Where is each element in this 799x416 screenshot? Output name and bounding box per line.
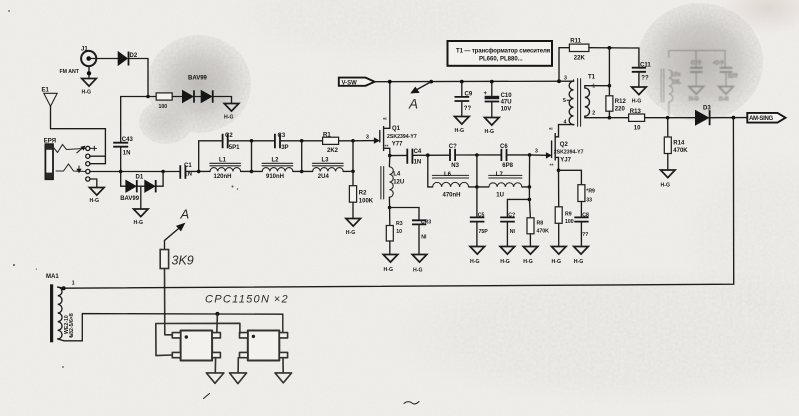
- svg-text:C43: C43: [122, 137, 134, 143]
- wire R8 to ground: [529, 234, 531, 246]
- svg-text:C5: C5: [478, 212, 485, 218]
- wire MA1 bottom to second row: [58, 314, 283, 341]
- svg-text:T1: T1: [588, 74, 596, 80]
- wire Q1 source to C4: [390, 154, 407, 156]
- svg-text:12U: 12U: [393, 180, 404, 186]
- capacitor C5: [470, 212, 488, 235]
- svg-text:5P1: 5P1: [229, 145, 240, 151]
- svg-text:2SK2394-Y7: 2SK2394-Y7: [554, 149, 584, 155]
- ghost ground 1: [689, 87, 704, 95]
- jack contact 5: [86, 177, 90, 181]
- transistor Q2: [549, 125, 584, 171]
- resistor 100: [156, 93, 172, 110]
- svg-text:H-G: H-G: [413, 267, 423, 273]
- diode D2: [118, 52, 138, 66]
- chassis arrow 1: [206, 373, 224, 383]
- scan dither band top middle: [225, 0, 525, 60]
- svg-text:3: 3: [366, 135, 369, 141]
- inductor L2: [262, 157, 293, 180]
- node bottom rail 3: [351, 170, 355, 174]
- AM-SING signal flag: [747, 113, 785, 123]
- resistor R14: [664, 137, 688, 154]
- diode pair BAV99 (ESD clamp): [182, 76, 212, 103]
- wire C5 to ground: [476, 222, 478, 246]
- svg-text:H-G: H-G: [574, 259, 584, 265]
- svg-text:J1: J1: [81, 47, 88, 53]
- jack contact 2: [86, 154, 90, 158]
- ground under C10: [485, 118, 500, 135]
- svg-text:??: ??: [582, 232, 588, 238]
- svg-text:R13: R13: [630, 109, 642, 115]
- svg-text:L6: L6: [444, 172, 452, 178]
- ghost capacitor 2 stem: [725, 72, 727, 86]
- wire node to R2: [352, 171, 354, 185]
- svg-text:A: A: [408, 97, 418, 112]
- svg-text:R9: R9: [565, 211, 572, 217]
- scan dither band bottom right: [380, 265, 799, 405]
- wire R3 to ground: [389, 241, 391, 254]
- svg-text:??: ??: [464, 106, 472, 112]
- node L7 right: [528, 185, 532, 189]
- resistor 3K9 (hand drawn): [160, 250, 194, 269]
- capacitor C3: [275, 133, 289, 151]
- ground under C11: [632, 87, 647, 104]
- svg-text:??: ??: [641, 75, 649, 81]
- svg-text:H-G: H-G: [346, 230, 356, 236]
- wire C11 to ground: [638, 72, 640, 87]
- svg-text:L3: L3: [322, 157, 330, 163]
- svg-text:22K: 22K: [574, 55, 586, 61]
- wire 3K9 down to optocoupler: [165, 269, 172, 335]
- svg-text:Q1: Q1: [392, 126, 401, 132]
- svg-text:75P: 75P: [479, 229, 489, 235]
- wire MA1 top stub: [58, 287, 64, 288]
- scan smudge blob right: [636, 2, 764, 122]
- node top rail 2: [300, 139, 304, 143]
- stray pencil tick bottom left: [204, 394, 210, 399]
- svg-text:10: 10: [634, 125, 641, 131]
- ground under C9: [455, 117, 470, 134]
- scan smudge blob left lower tail: [139, 100, 193, 144]
- wire contact 3 to antenna line: [90, 163, 106, 165]
- svg-text:H-G: H-G: [224, 115, 234, 121]
- svg-text:L?x: L?x: [671, 72, 680, 78]
- ghost capacitor 2: [720, 68, 733, 72]
- wire L7 to Q2 gate node: [522, 155, 530, 187]
- svg-text:H-G: H-G: [82, 90, 92, 96]
- svg-text:*R9: *R9: [586, 188, 595, 194]
- svg-text:D3: D3: [703, 106, 711, 112]
- wire J1 to D2: [89, 58, 118, 60]
- ghost capacitor 1 stem: [695, 72, 697, 86]
- ghost inductor core: [661, 69, 664, 102]
- gate arrowhead Q1: [374, 138, 379, 143]
- GHOST (faded photocopied) section inside right blob: [661, 51, 738, 116]
- scan dither band right edge: [675, 150, 799, 320]
- capacitor C8: [574, 212, 589, 238]
- wire main row to C1: [163, 171, 180, 173]
- svg-text:47U: 47U: [501, 100, 512, 106]
- svg-text:3K9: 3K9: [172, 254, 194, 268]
- wire contact 2 to antenna line: [90, 155, 106, 157]
- node IF 2: [475, 153, 479, 157]
- svg-text:H-G: H-G: [470, 259, 480, 265]
- svg-text:100: 100: [565, 219, 574, 225]
- svg-text:R3: R3: [396, 221, 403, 227]
- optocoupler U1 (CPC1150N): [172, 331, 220, 361]
- svg-text:470K: 470K: [673, 148, 688, 154]
- wire R2 to ground: [352, 202, 354, 218]
- svg-text:2K2: 2K2: [327, 148, 339, 154]
- node T1 secondary top: [608, 84, 612, 88]
- jack switch arrow upper: [77, 148, 83, 153]
- svg-text:C3: C3: [278, 133, 286, 139]
- capacitor C9: [455, 82, 473, 116]
- chassis arrow 3: [275, 373, 292, 383]
- svg-text:L7: L7: [496, 172, 504, 178]
- node bottom rail 1: [250, 170, 254, 174]
- svg-text:470nH: 470nH: [443, 192, 461, 198]
- svg-text:33: 33: [586, 197, 592, 203]
- wire CR3 to ground: [418, 224, 420, 254]
- ground under R3: [383, 255, 398, 273]
- svg-text:Q2: Q2: [560, 142, 569, 148]
- transistor Q1: [380, 82, 417, 156]
- scan smudge blob left: [147, 35, 251, 133]
- node D1 right: [161, 170, 165, 174]
- antenna E1: [42, 88, 58, 107]
- node FM junction: [146, 95, 150, 99]
- wire R12 to output row: [608, 111, 610, 118]
- svg-text:H-G: H-G: [485, 129, 495, 135]
- node rail at Q1 drain: [388, 80, 392, 84]
- svg-text:5: 5: [563, 98, 566, 104]
- ground under CR3: [412, 255, 427, 274]
- svg-text:2SK2394-Y7: 2SK2394-Y7: [387, 134, 417, 140]
- wire R11 node to R12: [608, 48, 610, 96]
- scan smudge top right pink: [718, 0, 799, 34]
- svg-text:*²: *²: [549, 128, 553, 134]
- wire L4 to R3 node: [388, 197, 390, 207]
- svg-text:C6: C6: [500, 144, 508, 150]
- wire filter input vertical: [199, 141, 223, 172]
- svg-text:C10: C10: [501, 93, 513, 99]
- resistor R9: [555, 207, 574, 225]
- jack contact 1: [86, 146, 90, 150]
- capacitor C10 electrolytic: [484, 82, 513, 117]
- svg-text:R11: R11: [570, 38, 581, 44]
- svg-text:H-G: H-G: [500, 259, 510, 265]
- wire IF node2 shunt: [476, 155, 478, 217]
- svg-text:H-G: H-G: [661, 182, 671, 188]
- wire R9b to C8: [580, 202, 582, 218]
- node R11 right: [608, 46, 612, 50]
- ground under jack: [90, 188, 105, 205]
- svg-text:FM ANT: FM ANT: [60, 69, 80, 75]
- svg-text:1: 1: [592, 84, 595, 90]
- inductor L1: [210, 157, 241, 180]
- svg-text:H-G: H-G: [689, 97, 699, 103]
- svg-text:1U?: 1U?: [728, 74, 738, 80]
- wire resistor to BAV99: [172, 96, 182, 98]
- wire shunt 1: [251, 141, 253, 172]
- wire BAV99 to ground: [195, 97, 232, 104]
- svg-text:C8: C8: [582, 212, 589, 218]
- svg-text:N3: N3: [451, 163, 459, 169]
- wire L3 to node: [343, 141, 353, 172]
- ground under R14: [661, 170, 676, 188]
- wire Q2 source to R9b: [559, 170, 582, 184]
- ghost inductor winding: [669, 70, 673, 102]
- svg-text:BAV99: BAV99: [188, 76, 208, 82]
- svg-text:H-G: H-G: [523, 259, 533, 265]
- capacitor C? series: [449, 144, 460, 169]
- capacitor C4: [407, 149, 422, 166]
- transformer T1: [563, 74, 609, 126]
- svg-text:C2: C2: [225, 133, 233, 139]
- resistor R8: [527, 218, 549, 235]
- capacitor C7: [500, 199, 529, 234]
- optocoupler U2 (CPC1150N): [240, 331, 288, 361]
- svg-text:3: 3: [564, 76, 567, 82]
- node R12 bottom: [608, 116, 612, 120]
- svg-text:H-G: H-G: [134, 220, 144, 226]
- svg-text:H-G: H-G: [632, 98, 642, 104]
- capacitor CR3: [412, 219, 431, 240]
- stray pencil squiggle bottom middle: [404, 402, 419, 404]
- node top rail 1: [250, 139, 254, 143]
- wire node down to IC1 pin: [216, 314, 219, 333]
- svg-text:2: 2: [592, 111, 595, 117]
- svg-text:10V: 10V: [501, 106, 512, 112]
- resistor R1: [323, 132, 339, 154]
- wire R1 to gate node: [339, 140, 353, 142]
- node L4 bottom: [388, 206, 392, 210]
- svg-text:3: 3: [535, 148, 538, 154]
- svg-text:D1: D1: [136, 175, 144, 181]
- wire C3 to R1: [280, 140, 323, 142]
- svg-text:3P: 3P: [281, 145, 288, 151]
- node under J1: [87, 71, 91, 75]
- jack spring contact lower: [56, 164, 86, 172]
- svg-text:YJ7: YJ7: [560, 157, 571, 163]
- wire IC2 bottom-left to chassis: [237, 358, 239, 373]
- diode D3: [695, 106, 711, 126]
- wire node to CR3: [390, 208, 419, 221]
- node MA1 top terminal: [62, 286, 66, 290]
- jack contact 3: [86, 162, 90, 166]
- diode pair D1 BAV99: [120, 172, 163, 202]
- node second row at IC1: [215, 312, 219, 316]
- svg-text:L4: L4: [393, 171, 401, 177]
- ghost capacitor 1: [690, 68, 703, 72]
- node rail at C10: [490, 80, 494, 84]
- svg-text:100K: 100K: [359, 198, 374, 204]
- svg-text:R1: R1: [323, 132, 331, 138]
- wire node to R14: [667, 118, 669, 137]
- svg-text:R8: R8: [537, 220, 544, 226]
- wire lower rail L1-L2: [199, 170, 263, 172]
- svg-text:12L: 12L: [672, 80, 682, 86]
- svg-text:H-G: H-G: [455, 128, 465, 134]
- svg-text:10: 10: [396, 229, 402, 235]
- svg-text:100: 100: [159, 104, 168, 110]
- wire C6 to Q2 gate node: [507, 154, 530, 156]
- svg-text:910nH: 910nH: [266, 174, 284, 180]
- resistor *R9: [578, 185, 595, 204]
- node Q2 source: [557, 169, 561, 173]
- resistor R11: [569, 38, 589, 61]
- ground after BAV99: [224, 104, 239, 121]
- capacitor C11: [632, 62, 652, 81]
- node filter input: [197, 170, 201, 174]
- node at R14: [666, 116, 670, 120]
- svg-text:E1: E1: [42, 88, 50, 94]
- svg-text:C9: C9: [465, 91, 473, 97]
- ground under R8: [523, 247, 538, 265]
- svg-text:1N: 1N: [414, 159, 422, 165]
- wire main row C43 to D1 right: [121, 171, 163, 173]
- svg-text:C11: C11: [640, 62, 651, 68]
- svg-text:C?: C?: [449, 144, 457, 150]
- svg-text:•C·?·: •C·?·: [713, 61, 725, 67]
- svg-text:R12: R12: [615, 99, 627, 105]
- jack contact 4: [86, 169, 90, 173]
- svg-text:MA1: MA1: [46, 274, 59, 280]
- inductor L3: [312, 157, 343, 180]
- resistor R13: [629, 109, 645, 131]
- node bottom rail 2: [300, 170, 304, 174]
- inductor L7: [489, 172, 522, 199]
- node Q2 gate: [528, 153, 532, 157]
- wire AM node down and across to MA1: [64, 118, 734, 289]
- svg-text:4: 4: [564, 120, 567, 126]
- svg-text:NI: NI: [421, 234, 427, 240]
- svg-text:AM-SING: AM-SING: [749, 116, 774, 122]
- svg-text:A: A: [180, 207, 190, 222]
- svg-text:470K: 470K: [537, 228, 550, 234]
- svg-text:CPC1150N ×2: CPC1150N ×2: [205, 294, 289, 306]
- transformer MA1: [36, 269, 75, 343]
- ghost ground 2: [719, 87, 734, 95]
- node L6-L7: [475, 185, 479, 189]
- V-SW power flag: [339, 78, 375, 87]
- wire J1 to ground: [88, 66, 90, 78]
- wire D2 to FM node: [121, 59, 148, 97]
- svg-text:1N: 1N: [184, 172, 192, 178]
- ghost wire cap1 stem: [695, 51, 697, 68]
- node AM output: [732, 116, 736, 120]
- node rail at A arrow: [429, 80, 433, 84]
- ground under C8: [574, 247, 589, 265]
- svg-text:CR3: CR3: [421, 219, 431, 225]
- svg-text:2: 2: [70, 333, 73, 339]
- svg-text:L1: L1: [219, 157, 227, 163]
- node R1 right: [351, 139, 355, 143]
- svg-text:+: +: [484, 91, 488, 97]
- node rail at C9: [460, 80, 464, 84]
- wire node to resistor 100: [148, 96, 156, 98]
- svg-text:1: 1: [72, 280, 75, 286]
- svg-text:6P8: 6P8: [502, 163, 513, 169]
- ground under C5: [470, 247, 485, 265]
- jack EPJA body: [44, 138, 56, 179]
- ground under J1: [82, 79, 97, 96]
- svg-text:R2: R2: [359, 190, 367, 196]
- wire V-SW rail: [375, 80, 574, 83]
- node C7 tap: [528, 198, 532, 202]
- chassis arrow 2: [230, 373, 247, 384]
- svg-text:Y77: Y77: [392, 141, 403, 147]
- ground under R9: [552, 247, 567, 265]
- svg-text:H-G: H-G: [384, 267, 394, 273]
- resistor R12: [606, 96, 627, 113]
- svg-text:V-SW: V-SW: [342, 80, 358, 86]
- inductor L6: [432, 172, 468, 199]
- wire shunt 2: [301, 141, 303, 172]
- A arrow from rail: [408, 82, 431, 112]
- wire gate of Q2: [530, 154, 548, 156]
- svg-text:*²: *²: [383, 118, 387, 124]
- svg-text:C4: C4: [414, 149, 422, 155]
- jack spring contact upper: [54, 145, 86, 153]
- ghost wire inductor to rail: [668, 102, 670, 115]
- wire contact 4 main row: [90, 171, 120, 173]
- connector J1: [81, 47, 96, 67]
- svg-text:H-G: H-G: [90, 198, 100, 204]
- wire output row to R13: [596, 117, 629, 119]
- jack switch arrow lower: [78, 166, 80, 170]
- ground under R2: [346, 219, 361, 236]
- wire gate of Q1: [353, 140, 376, 142]
- svg-text:R14: R14: [673, 140, 685, 146]
- inductor L4: [381, 156, 404, 199]
- svg-text:220: 220: [615, 106, 626, 112]
- wire Q2 gate node down to R8: [529, 187, 530, 218]
- svg-text:BAV99: BAV99: [120, 196, 140, 202]
- wire IC2 bottom-right to chassis: [282, 358, 284, 373]
- svg-text:C1: C1: [184, 163, 192, 169]
- svg-text:H-G: H-G: [552, 259, 562, 265]
- capacitor C2: [223, 133, 241, 151]
- wire node to R3: [389, 208, 391, 226]
- wire D1 centre to ground: [140, 186, 142, 208]
- wire R9 to ground: [558, 223, 560, 246]
- resistor R2: [349, 186, 373, 205]
- wire D3 to AM node: [709, 117, 747, 119]
- wire lower rail L2-L3: [293, 170, 313, 172]
- svg-text:NI: NI: [510, 229, 516, 235]
- wire R11 to C11: [589, 48, 639, 68]
- capacitor C1: [180, 163, 192, 179]
- jack contact 1 stub: [90, 146, 97, 150]
- gate arrowhead Q2: [546, 153, 551, 158]
- wire C1 to filter: [185, 170, 198, 172]
- node main row at C43: [119, 170, 123, 174]
- resistor R3: [386, 221, 402, 241]
- wire C8 to ground: [580, 222, 582, 246]
- svg-text:2U4: 2U4: [318, 174, 330, 180]
- node rail at T1: [557, 79, 561, 83]
- ground under D1: [134, 209, 149, 226]
- capacitor C43: [113, 97, 133, 172]
- wire IC1 bottom-left loop to IC2 top-left: [156, 323, 240, 355]
- wire L6 to L7: [469, 186, 489, 188]
- svg-text:1N: 1N: [123, 151, 131, 157]
- wire IF node1 down: [428, 155, 433, 187]
- ghost wire top: [669, 51, 725, 68]
- svg-text:C?: C?: [508, 212, 515, 218]
